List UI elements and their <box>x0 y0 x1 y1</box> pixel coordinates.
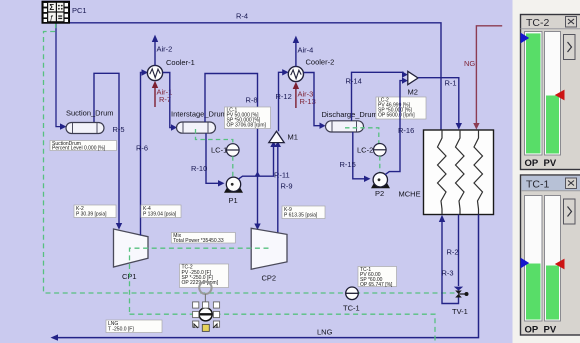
svg-text:Air-4: Air-4 <box>298 46 314 55</box>
wire R-5 <box>94 73 119 223</box>
annotation TC-1 box <box>358 267 397 289</box>
svg-text:P 30.39 [psia]: P 30.39 [psia] <box>76 212 107 218</box>
svg-text:P1: P1 <box>229 196 238 205</box>
wire R-9 CP2 to M1 <box>277 145 279 235</box>
mixer M2 <box>408 71 418 84</box>
svg-text:Percent Level 0.000 [%]: Percent Level 0.000 [%] <box>52 146 106 152</box>
faceplate panel TC-1 <box>521 175 580 336</box>
svg-text:ƒ: ƒ <box>50 13 54 22</box>
stream Air-4 <box>295 39 297 66</box>
svg-text:R-6: R-6 <box>136 144 148 153</box>
wire green TC-2 PV from LNG <box>130 314 436 343</box>
svg-text:P2: P2 <box>375 189 384 198</box>
svg-text:P 613.35 [psia]: P 613.35 [psia] <box>284 213 318 219</box>
pump P2 <box>371 173 390 189</box>
svg-text:R-10: R-10 <box>191 164 207 173</box>
svg-text:Σ: Σ <box>49 3 54 12</box>
wire R-14 <box>352 72 404 121</box>
svg-text:Air-2: Air-2 <box>157 45 173 54</box>
svg-text:PV: PV <box>544 325 557 336</box>
wire R-8 <box>205 74 258 225</box>
svg-text:Suction_Drum: Suction_Drum <box>66 109 114 118</box>
svg-text:CP2: CP2 <box>262 274 277 283</box>
cooler Cooler-2 <box>288 66 303 81</box>
svg-text:R-2: R-2 <box>447 248 459 257</box>
wire R-15 <box>353 132 364 179</box>
wire R-16 P2 to M2 <box>385 81 403 175</box>
svg-text:M1: M1 <box>288 133 298 142</box>
vessel Discharge_Drum <box>326 121 364 132</box>
svg-text:OP 65.747 [%]: OP 65.747 [%] <box>360 282 393 288</box>
svg-text:R-4: R-4 <box>236 12 248 21</box>
svg-text:LC-2: LC-2 <box>357 146 373 155</box>
valve TV-1 <box>454 287 469 298</box>
wire green LC-2 to P2 <box>379 156 381 172</box>
svg-text:R-3: R-3 <box>442 269 454 278</box>
wire green Interstage to LC-1 <box>196 129 233 144</box>
svg-text:PC1: PC1 <box>72 6 87 15</box>
svg-text:R-5: R-5 <box>113 125 125 134</box>
wire Cooler-2 to Discharge_Drum <box>304 73 320 126</box>
wire green TC-2 OP to compressors <box>130 248 269 314</box>
stream Air-3 <box>295 85 297 108</box>
annotation K-9 box <box>282 206 325 219</box>
svg-text:R-1: R-1 <box>445 79 457 88</box>
vessel Suction_Drum <box>66 123 104 134</box>
svg-text:OP 5600.0 [rpm]: OP 5600.0 [rpm] <box>378 112 415 118</box>
svg-text:OP: OP <box>525 325 539 336</box>
svg-text:LC-1: LC-1 <box>211 146 227 155</box>
wire R-6 <box>141 73 146 236</box>
stream NG <box>476 26 502 123</box>
wire R-12 M1 to Cooler-2 <box>279 72 287 131</box>
wire R-10 <box>206 133 218 183</box>
cooler Cooler-1 <box>147 65 162 80</box>
controller LC-1 <box>227 144 240 157</box>
svg-text:Total Power *35450.33: Total Power *35450.33 <box>173 238 224 244</box>
wire M2 outlet / R-1 <box>418 78 459 123</box>
wire R-2 R-3 TV-1 loop <box>458 215 460 287</box>
stream Air-2 <box>154 38 156 65</box>
mixer M1 <box>269 131 284 142</box>
svg-text:MCHE: MCHE <box>399 190 421 199</box>
controller TC-2 selected icon <box>193 302 220 332</box>
wire R-11 P1 outlet to M1 <box>238 145 273 180</box>
pump P1 <box>224 177 243 193</box>
svg-text:R-11: R-11 <box>274 171 290 180</box>
wire Cooler-1 to Interstage_Drum <box>163 73 171 128</box>
svg-text:Cooler-1: Cooler-1 <box>166 58 195 67</box>
svg-text:R-16: R-16 <box>398 126 414 135</box>
svg-text:OP: OP <box>525 158 539 169</box>
annotation K-2 box <box>74 205 116 218</box>
svg-text:R-12: R-12 <box>276 92 292 101</box>
svg-text:OP 3706.08 [rpm]: OP 3706.08 [rpm] <box>227 122 267 128</box>
svg-text:M2: M2 <box>408 88 418 97</box>
controller LC-2 <box>374 144 387 157</box>
svg-text:R-8: R-8 <box>246 96 258 105</box>
compressor CP1 <box>114 229 149 267</box>
svg-text:R-15: R-15 <box>340 160 356 169</box>
wire green PC1 signal <box>44 23 455 293</box>
stream LNG product <box>58 215 479 338</box>
app background strip right <box>513 0 580 343</box>
svg-text:NG: NG <box>464 59 475 68</box>
compressor CP2 <box>251 228 287 269</box>
svg-text:T -250.0 [F]: T -250.0 [F] <box>108 327 134 333</box>
annotation TC-2 box <box>180 264 229 288</box>
vessel Interstage_Drum <box>177 122 216 133</box>
svg-text:TC-1: TC-1 <box>343 304 360 313</box>
svg-text:TV-1: TV-1 <box>452 307 468 316</box>
svg-text:TC-1: TC-1 <box>526 179 549 191</box>
controller PC1 <box>42 1 70 23</box>
annotation LNG box <box>106 320 162 333</box>
junction flow arrow <box>255 171 261 176</box>
svg-text:R-14: R-14 <box>346 77 362 86</box>
wire PC1 to Suction_Drum <box>56 23 60 127</box>
wire green LC-1 to P1 <box>232 156 234 177</box>
svg-text:Cooler-2: Cooler-2 <box>306 58 335 67</box>
svg-text:Discharge_Drum: Discharge_Drum <box>322 110 378 119</box>
annotation Mix power box <box>171 233 235 245</box>
stream Air-1 <box>154 84 156 107</box>
svg-text:Interstage_Drum: Interstage_Drum <box>171 110 227 119</box>
annotation LC-2 box <box>376 97 426 119</box>
faceplate panel TC-2 <box>521 15 580 170</box>
svg-text:R-9: R-9 <box>281 182 293 191</box>
wire R-4 horizontal <box>70 23 442 130</box>
svg-text:LNG: LNG <box>317 328 333 337</box>
annotation LC-1 box <box>225 107 271 129</box>
controller TC-2 rotate handle <box>199 282 211 302</box>
wire green Discharge to LC-2 <box>345 128 379 144</box>
heat exchanger MCHE <box>424 130 494 215</box>
annotation SuctionDrum level box <box>50 141 117 152</box>
controller TC-1 <box>346 287 359 300</box>
svg-text:P 139.04 [psia]: P 139.04 [psia] <box>143 212 177 218</box>
svg-text:TC-2: TC-2 <box>526 17 549 29</box>
annotation K-4 box <box>141 205 181 218</box>
svg-text:PV: PV <box>544 158 557 169</box>
